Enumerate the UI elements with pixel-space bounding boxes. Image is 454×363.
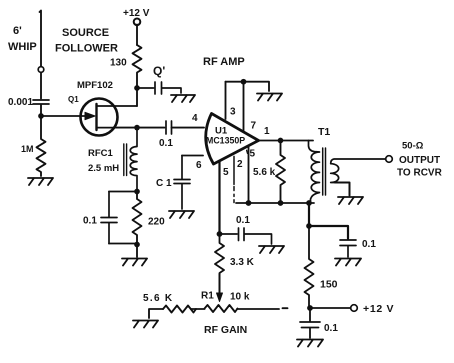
svg-text:50-Ω: 50-Ω [402,141,424,152]
wire top rail of source network [109,191,137,193]
node decoupling junction [306,223,312,229]
node drain junction [134,85,140,91]
wire antenna terminal to input cap [40,73,42,99]
terminal 50 ohm output [386,156,393,163]
svg-text:1M: 1M [21,144,34,154]
svg-text:MPF102: MPF102 [77,80,113,91]
capacitor 0.1 AGC [220,228,272,244]
wire gate [41,115,85,117]
wire and terminal +12V bottom [310,307,351,309]
svg-text:R1: R1 [201,291,214,302]
svg-text:0.1: 0.1 [324,323,338,334]
svg-text:1: 1 [264,126,270,137]
resistor 130 [133,45,142,88]
capacitor Q' drain bypass [137,82,181,94]
wire to right bypass cap [309,226,348,239]
svg-text:7: 7 [251,121,257,132]
node +12V bottom junction [307,305,313,311]
svg-text:3: 3 [230,107,236,118]
node pin 1 junction [278,138,284,144]
wire pot to +12V node [237,307,288,310]
resistor 150 [305,226,314,308]
capacitor 0.1 coupling [166,121,172,134]
node gate junction [38,113,44,119]
capacitor C1 [174,156,190,210]
wire bus at y203 [236,202,314,204]
node source junction [134,125,140,131]
wire pot left to 5.6K [191,308,205,310]
svg-text:6: 6 [196,160,202,171]
capacitor 0.001 [33,100,49,104]
node 3.3K top [217,231,223,237]
ground 1M [28,178,53,185]
capacitor 0.1 right bypass [340,240,356,257]
inductor RFC1 2.5 mH [130,128,137,192]
ground right bypass [335,259,361,266]
wire coupling cap to pin 4 [172,127,205,129]
power +12V top terminal [134,19,141,26]
svg-text:3.3 K: 3.3 K [230,257,255,268]
svg-text:OUTPUT: OUTPUT [399,155,440,166]
svg-text:T1: T1 [318,126,330,138]
ground pins 3-7 [257,94,282,101]
svg-text:FOLLOWER: FOLLOWER [55,43,118,55]
svg-text:RFC1: RFC1 [88,148,114,159]
svg-text:5: 5 [250,149,256,160]
svg-text:5.6 k: 5.6 k [253,167,276,178]
wire pin 7 [243,82,245,131]
resistor 5.6K gain [163,306,196,313]
label RF AMP [203,56,245,68]
svg-text:Q1: Q1 [68,95,79,104]
potentiometer R1 10k [205,305,238,312]
wire pin 1 [259,140,314,142]
resistor 5.6k [276,141,285,204]
resistor 220 [133,192,142,245]
label SOURCE FOLLOWER [55,27,118,55]
wire 5.6K to ground [149,309,163,318]
transistor Q1 MPF102 [81,99,118,136]
wire pin 6 [182,155,203,157]
node antenna terminal [38,67,44,73]
ground AGC cap [259,246,284,253]
transformer T1 [309,141,320,204]
svg-text:10 k: 10 k [230,292,250,303]
svg-text:130: 130 [110,58,127,69]
capacitor 0.1 bottom [300,308,320,338]
node source network bottom [134,242,140,248]
svg-text:WHIP: WHIP [8,41,37,53]
wire primary bottom riser [308,203,310,226]
svg-text:150: 150 [320,279,338,291]
svg-text:5.6 K: 5.6 K [143,293,173,304]
ground bottom cap [297,340,323,347]
wire antenna lead [40,11,42,67]
ground T1 secondary [338,197,363,204]
wire drain riser [136,88,138,106]
svg-text:6': 6' [13,25,22,37]
wire input cap to gate node [40,105,42,116]
node RFC bottom [134,189,140,195]
svg-text:0.001: 0.001 [8,97,33,108]
ground 5.6K [133,321,158,328]
label 6' WHIP [8,25,37,53]
wire pin 3 [225,82,227,119]
svg-text:+12 V: +12 V [363,303,394,315]
svg-text:RF GAIN: RF GAIN [204,324,247,336]
wire pins 3-7 rail [226,82,270,91]
op-amp U1 MC1350P [206,114,259,165]
wire to ground source network [136,245,138,258]
svg-text:0.1: 0.1 [83,216,97,227]
svg-text:5: 5 [223,167,229,178]
resistor 1M [37,116,46,176]
svg-text:2: 2 [237,159,243,170]
svg-text:0.1: 0.1 [362,239,376,250]
ground drain bypass [171,95,195,102]
wire pin 2 [233,156,235,202]
svg-text:220: 220 [148,217,165,228]
wire pin 5 right [248,146,250,203]
wire pin 5 left [218,162,220,234]
svg-text:RF AMP: RF AMP [203,56,245,68]
svg-text:SOURCE: SOURCE [62,27,109,39]
svg-text:C 1: C 1 [156,178,172,189]
svg-text:MC1350P: MC1350P [206,136,245,146]
wire +12V to resistor 130 [136,25,138,46]
wire bottom rail of source network [109,243,137,245]
svg-text:0.1: 0.1 [236,215,250,226]
svg-text:TO RCVR: TO RCVR [397,168,443,179]
node pins 3-7 rail [241,79,247,85]
svg-text:+12 V: +12 V [123,8,150,19]
wire source to coupling cap [115,127,165,129]
svg-text:2.5 mH: 2.5 mH [88,163,119,174]
resistor 3.3K [215,234,224,274]
ground source network [122,259,147,266]
svg-text:Q': Q' [153,64,165,78]
capacitor 0.1 source network [101,192,117,244]
svg-text:4: 4 [192,113,198,124]
svg-text:0.1: 0.1 [159,138,173,149]
ground C1 [169,211,194,218]
